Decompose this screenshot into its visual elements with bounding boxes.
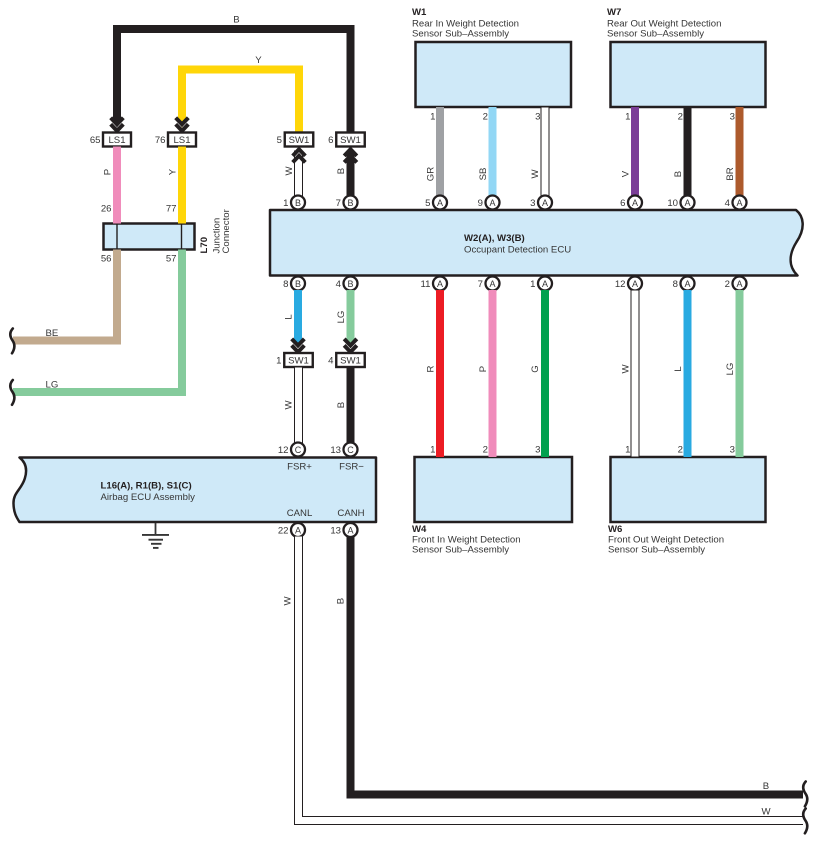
svg-text:W6: W6 xyxy=(608,524,622,535)
junction connector L70 xyxy=(101,204,232,265)
svg-text:W: W xyxy=(284,400,295,410)
svg-text:LG: LG xyxy=(725,363,736,376)
svg-text:B: B xyxy=(347,198,353,208)
arrow into LS1-65 xyxy=(111,118,124,131)
svg-text:BE: BE xyxy=(46,328,59,339)
svg-text:W: W xyxy=(761,807,771,818)
wire GR (gray, W1 pin 1 to ECU 5A) xyxy=(426,107,445,197)
svg-text:B: B xyxy=(336,168,347,174)
wire LG (light green, ECU 4B to SW1-4) xyxy=(336,290,355,348)
airbag ECU L16(A), R1(B), S1(C) xyxy=(13,458,376,523)
svg-text:77: 77 xyxy=(166,204,177,215)
wire L (blue, ECU 8B to SW1-1) xyxy=(284,290,303,348)
wire Y top (yellow, LS1-76 to SW1-5) xyxy=(178,55,299,132)
break squiggle BE xyxy=(10,329,14,354)
svg-text:3: 3 xyxy=(535,445,540,456)
connector LS1 (65) xyxy=(90,133,131,147)
svg-text:3: 3 xyxy=(530,198,535,209)
svg-text:1: 1 xyxy=(276,356,281,367)
ECU bottom pin 2(A) xyxy=(725,277,747,291)
svg-text:B: B xyxy=(336,598,347,604)
svg-text:CANL: CANL xyxy=(287,508,313,519)
svg-text:Y: Y xyxy=(255,55,262,66)
svg-text:A: A xyxy=(437,198,443,208)
svg-text:1: 1 xyxy=(530,279,535,290)
svg-text:L16(A), R1(B), S1(C): L16(A), R1(B), S1(C) xyxy=(101,481,192,492)
svg-text:A: A xyxy=(347,526,353,536)
svg-text:56: 56 xyxy=(101,254,112,265)
svg-text:13: 13 xyxy=(330,445,341,456)
svg-text:FSR+: FSR+ xyxy=(287,462,312,473)
svg-text:3: 3 xyxy=(730,445,735,456)
svg-text:LS1: LS1 xyxy=(108,135,125,146)
svg-text:7: 7 xyxy=(478,279,483,290)
svg-text:A: A xyxy=(736,198,742,208)
svg-text:W: W xyxy=(283,596,294,606)
svg-text:8: 8 xyxy=(673,279,678,290)
wire G (green, ECU 1A to W4 pin 3) xyxy=(530,290,549,457)
svg-text:1: 1 xyxy=(430,445,435,456)
wire V (violet, W7 pin 1 to ECU 6A) xyxy=(621,107,640,197)
svg-text:Sensor Sub–Assembly: Sensor Sub–Assembly xyxy=(412,29,509,40)
svg-text:B: B xyxy=(233,15,239,26)
svg-text:A: A xyxy=(632,198,638,208)
svg-text:Sensor Sub–Assembly: Sensor Sub–Assembly xyxy=(607,29,704,40)
svg-text:G: G xyxy=(530,365,541,372)
svg-text:W: W xyxy=(284,166,295,176)
arrow into SW1-5 xyxy=(293,149,306,162)
wire L (blue, ECU 8A to W6 pin 2) xyxy=(673,290,692,457)
wire B (black, W7 pin 2 to ECU 10A) xyxy=(673,107,692,197)
svg-text:R: R xyxy=(426,365,437,372)
svg-text:1: 1 xyxy=(283,198,288,209)
wire B (black, ECU pin 7B to SW1-6) xyxy=(336,151,355,196)
svg-text:11: 11 xyxy=(421,279,431,290)
wire B (black, SW1-4 to airbag 13C) xyxy=(336,367,355,443)
arrow into SW1-4 xyxy=(344,339,357,352)
svg-text:B: B xyxy=(673,171,684,177)
svg-text:Occupant Detection ECU: Occupant Detection ECU xyxy=(464,245,571,256)
svg-text:C: C xyxy=(295,445,302,455)
svg-text:LG: LG xyxy=(46,380,59,391)
connector SW1 (1) xyxy=(276,353,313,367)
sensor W1 Rear In Weight Detection xyxy=(412,7,571,107)
svg-text:Connector: Connector xyxy=(221,208,232,253)
wire W (white, ECU 12A to W6 pin 1) xyxy=(621,290,640,457)
svg-text:W4: W4 xyxy=(412,524,427,535)
ECU bottom pin 1(A) xyxy=(530,277,552,291)
svg-text:4: 4 xyxy=(328,356,334,367)
svg-text:A: A xyxy=(684,279,690,289)
svg-text:A: A xyxy=(542,279,548,289)
svg-text:12: 12 xyxy=(278,445,289,456)
sensor W6 Front Out Weight Detection xyxy=(608,457,766,556)
svg-text:A: A xyxy=(542,198,548,208)
svg-text:A: A xyxy=(437,279,443,289)
svg-text:13: 13 xyxy=(330,526,341,537)
svg-text:Sensor Sub–Assembly: Sensor Sub–Assembly xyxy=(608,545,705,556)
airbag pin 13(A) xyxy=(330,523,357,537)
ECU bottom pin 4(B) xyxy=(336,277,358,291)
svg-text:A: A xyxy=(632,279,638,289)
svg-text:Sensor Sub–Assembly: Sensor Sub–Assembly xyxy=(412,545,509,556)
break squiggle W right xyxy=(803,809,807,834)
wire B CANH (black, airbag 13A to right break) xyxy=(336,537,804,795)
svg-text:26: 26 xyxy=(101,204,112,215)
sensor W4 Front In Weight Detection xyxy=(412,457,572,556)
svg-text:L: L xyxy=(673,366,684,372)
svg-text:3: 3 xyxy=(535,112,540,123)
svg-text:9: 9 xyxy=(478,198,483,209)
svg-text:FSR−: FSR− xyxy=(339,462,364,473)
svg-text:L: L xyxy=(284,314,295,320)
svg-text:SW1: SW1 xyxy=(340,135,361,146)
ECU top pin 10(A) xyxy=(667,196,694,210)
svg-text:P: P xyxy=(103,169,114,175)
svg-text:SB: SB xyxy=(478,168,489,181)
ECU top pin 6(A) xyxy=(620,196,642,210)
svg-text:A: A xyxy=(295,526,301,536)
ECU bottom pin 11(A) xyxy=(421,277,447,291)
wire SB (sky blue, W1 pin 2 to ECU 9A) xyxy=(478,107,497,197)
ECU bottom pin 12(A) xyxy=(615,277,642,291)
wire BR (brown, W7 pin 3 to ECU 4A) xyxy=(725,107,744,197)
svg-text:3: 3 xyxy=(730,112,735,123)
connector LS1 (76) xyxy=(155,133,196,147)
svg-text:2: 2 xyxy=(678,112,683,123)
svg-text:2: 2 xyxy=(725,279,730,290)
svg-text:1: 1 xyxy=(625,112,630,123)
svg-text:1: 1 xyxy=(430,112,435,123)
svg-text:V: V xyxy=(621,170,632,177)
svg-text:5: 5 xyxy=(277,135,282,146)
svg-text:12: 12 xyxy=(615,279,626,290)
svg-text:SW1: SW1 xyxy=(340,356,361,367)
svg-text:7: 7 xyxy=(336,198,341,209)
svg-text:B: B xyxy=(336,402,347,408)
svg-text:6: 6 xyxy=(620,198,625,209)
svg-text:L70: L70 xyxy=(199,237,210,254)
airbag pin 12(C) xyxy=(278,443,305,457)
wire Y (yellow, LS1-76 to junction pin 77) xyxy=(168,147,187,224)
wire W (white, ECU pin 1B to SW1-5) xyxy=(284,151,303,196)
break squiggle B right xyxy=(803,782,807,807)
ECU top pin 7(B) xyxy=(336,196,358,210)
svg-text:Airbag ECU Assembly: Airbag ECU Assembly xyxy=(101,492,196,503)
wire LG (light green, ECU 2A to W6 pin 3) xyxy=(725,290,744,457)
wire R (red, ECU 11A to W4 pin 1) xyxy=(426,290,445,457)
wire P (pink, LS1-65 to junction pin 26) xyxy=(103,147,122,224)
svg-text:P: P xyxy=(478,366,489,372)
ECU top pin 5(A) xyxy=(425,196,447,210)
ECU bottom pin 8(A) xyxy=(673,277,695,291)
connector SW1 (5) xyxy=(277,133,314,147)
ECU top pin 1(B) xyxy=(283,196,305,210)
svg-text:B: B xyxy=(295,279,301,289)
svg-text:A: A xyxy=(489,198,495,208)
svg-text:LS1: LS1 xyxy=(173,135,190,146)
wire W (white, SW1-1 to airbag 12C) xyxy=(284,367,303,443)
ECU bottom pin 8(B) xyxy=(283,277,305,291)
svg-text:2: 2 xyxy=(483,445,488,456)
svg-text:BR: BR xyxy=(725,167,736,180)
airbag pin 13(C) xyxy=(330,443,357,457)
svg-text:8: 8 xyxy=(283,279,288,290)
arrow into SW1-6 xyxy=(344,149,357,162)
svg-text:4: 4 xyxy=(725,198,731,209)
svg-text:22: 22 xyxy=(278,526,289,537)
wire W CANL (white, airbag 22A to right break) xyxy=(283,537,804,821)
svg-text:SW1: SW1 xyxy=(288,356,309,367)
ECU top pin 3(A) xyxy=(530,196,552,210)
svg-text:A: A xyxy=(489,279,495,289)
airbag pin 22(A) xyxy=(278,523,305,537)
svg-text:5: 5 xyxy=(425,198,430,209)
ECU top pin 9(A) xyxy=(478,196,500,210)
wire LG (light green, junction pin 57 to left break) xyxy=(13,250,182,393)
svg-text:C: C xyxy=(347,445,354,455)
svg-text:B: B xyxy=(347,279,353,289)
arrow into LS1-76 xyxy=(176,118,189,131)
svg-text:Y: Y xyxy=(168,168,179,175)
break squiggle LG xyxy=(10,380,14,405)
svg-text:W: W xyxy=(621,364,632,374)
svg-text:B: B xyxy=(763,781,769,792)
ground xyxy=(142,523,169,548)
wire P (pink, ECU 7A to W4 pin 2) xyxy=(478,290,497,457)
svg-text:76: 76 xyxy=(155,135,166,146)
sensor W7 Rear Out Weight Detection xyxy=(607,7,766,107)
svg-text:B: B xyxy=(295,198,301,208)
wire B top (black, LS1-65 to SW1-6) xyxy=(113,15,351,133)
svg-text:W: W xyxy=(530,169,541,179)
svg-text:GR: GR xyxy=(426,167,437,181)
ECU bottom pin 7(A) xyxy=(478,277,500,291)
arrow into SW1-1 xyxy=(292,339,305,352)
ECU W2/W3 Occupant Detection ECU xyxy=(270,210,803,276)
svg-text:SW1: SW1 xyxy=(289,135,310,146)
wire W (white, W1 pin 3 to ECU 3A) xyxy=(530,107,549,197)
wire BE (beige, junction pin 56 to left break) xyxy=(13,250,117,341)
svg-text:1: 1 xyxy=(625,445,630,456)
connector SW1 (6) xyxy=(328,133,365,147)
svg-text:A: A xyxy=(736,279,742,289)
svg-text:10: 10 xyxy=(667,198,678,209)
svg-text:LG: LG xyxy=(336,311,347,324)
ECU top pin 4(A) xyxy=(725,196,747,210)
svg-text:CANH: CANH xyxy=(337,508,364,519)
svg-text:W2(A), W3(B): W2(A), W3(B) xyxy=(464,233,525,244)
svg-text:57: 57 xyxy=(166,254,177,265)
svg-text:W7: W7 xyxy=(607,7,621,18)
svg-text:65: 65 xyxy=(90,135,101,146)
svg-text:W1: W1 xyxy=(412,7,427,18)
svg-text:2: 2 xyxy=(678,445,683,456)
svg-text:4: 4 xyxy=(336,279,342,290)
connector SW1 (4) xyxy=(328,353,365,367)
svg-text:6: 6 xyxy=(328,135,333,146)
svg-text:2: 2 xyxy=(483,112,488,123)
svg-text:A: A xyxy=(684,198,690,208)
